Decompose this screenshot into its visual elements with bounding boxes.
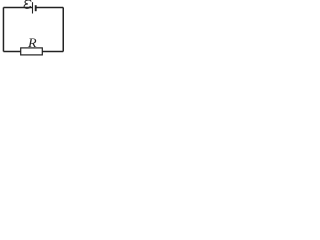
wire: left vertical side xyxy=(2,7,4,51)
battery E1: long thin plate (left) xyxy=(32,2,34,13)
resistor R: body box xyxy=(21,48,43,55)
wire: bottom-right segment from resistor to right corner xyxy=(42,51,63,53)
svg-text:R: R xyxy=(27,35,37,50)
label EMF script-E ball terminal xyxy=(30,6,31,7)
label EMF script-E xyxy=(24,0,31,8)
wire: right vertical side xyxy=(62,7,64,51)
wire: top-right segment from battery short plate to right corner xyxy=(36,6,63,8)
wire: top-left segment from left corner to battery long plate xyxy=(3,6,32,8)
wire: bottom-left segment from left corner to resistor xyxy=(3,51,20,53)
battery E1: short thick plate (right) xyxy=(35,5,37,11)
